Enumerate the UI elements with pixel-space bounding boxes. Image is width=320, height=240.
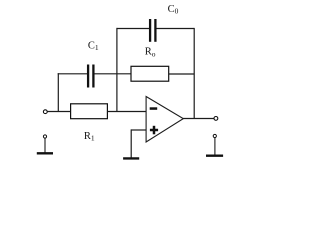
wire C1 branch left vertical (57, 73, 59, 111)
wire left vertical: top corner down to inverting input wire (116, 28, 118, 112)
wire R0 to right vertical (169, 73, 195, 75)
ground left: terminal circle (43, 135, 46, 138)
ground left: stem (44, 138, 46, 153)
capacitor C0 (150, 19, 155, 42)
svg-text:C0: C0 (168, 4, 179, 16)
wire C1 branch horizontal: corner to C1 left plate (58, 73, 87, 75)
svg-text:Ro: Ro (145, 47, 156, 59)
wire non-inverting down to ground (130, 129, 132, 158)
wire output: op-amp tip to output terminal (183, 118, 214, 120)
svg-text:C1: C1 (88, 40, 99, 52)
op-amp U1 (146, 97, 183, 143)
wire C1 right plate through junction to R0 (95, 73, 132, 75)
wire R1 to op-amp inverting input (107, 111, 146, 113)
ground right: stem (214, 138, 216, 156)
ground right: bar (206, 154, 223, 156)
resistor R0 (131, 66, 169, 81)
ground left: bar (37, 152, 53, 154)
wire input terminal to R1 (47, 111, 70, 113)
wire top-right: C0 right plate to right node corner (157, 28, 195, 30)
node output terminal (214, 117, 218, 121)
resistor R1 (71, 104, 108, 119)
wire right vertical: top corner down to output wire (193, 28, 195, 119)
node input terminal (43, 110, 47, 114)
ground op-amp plus (123, 157, 139, 159)
wire top-left: left node to C0 left plate (117, 28, 150, 30)
label minus input (150, 107, 158, 110)
label plus input (150, 126, 158, 135)
ground right: terminal circle (213, 134, 216, 137)
svg-text:R1: R1 (84, 131, 95, 143)
capacitor C1 (88, 65, 93, 88)
wire non-inverting input stub (131, 129, 146, 131)
